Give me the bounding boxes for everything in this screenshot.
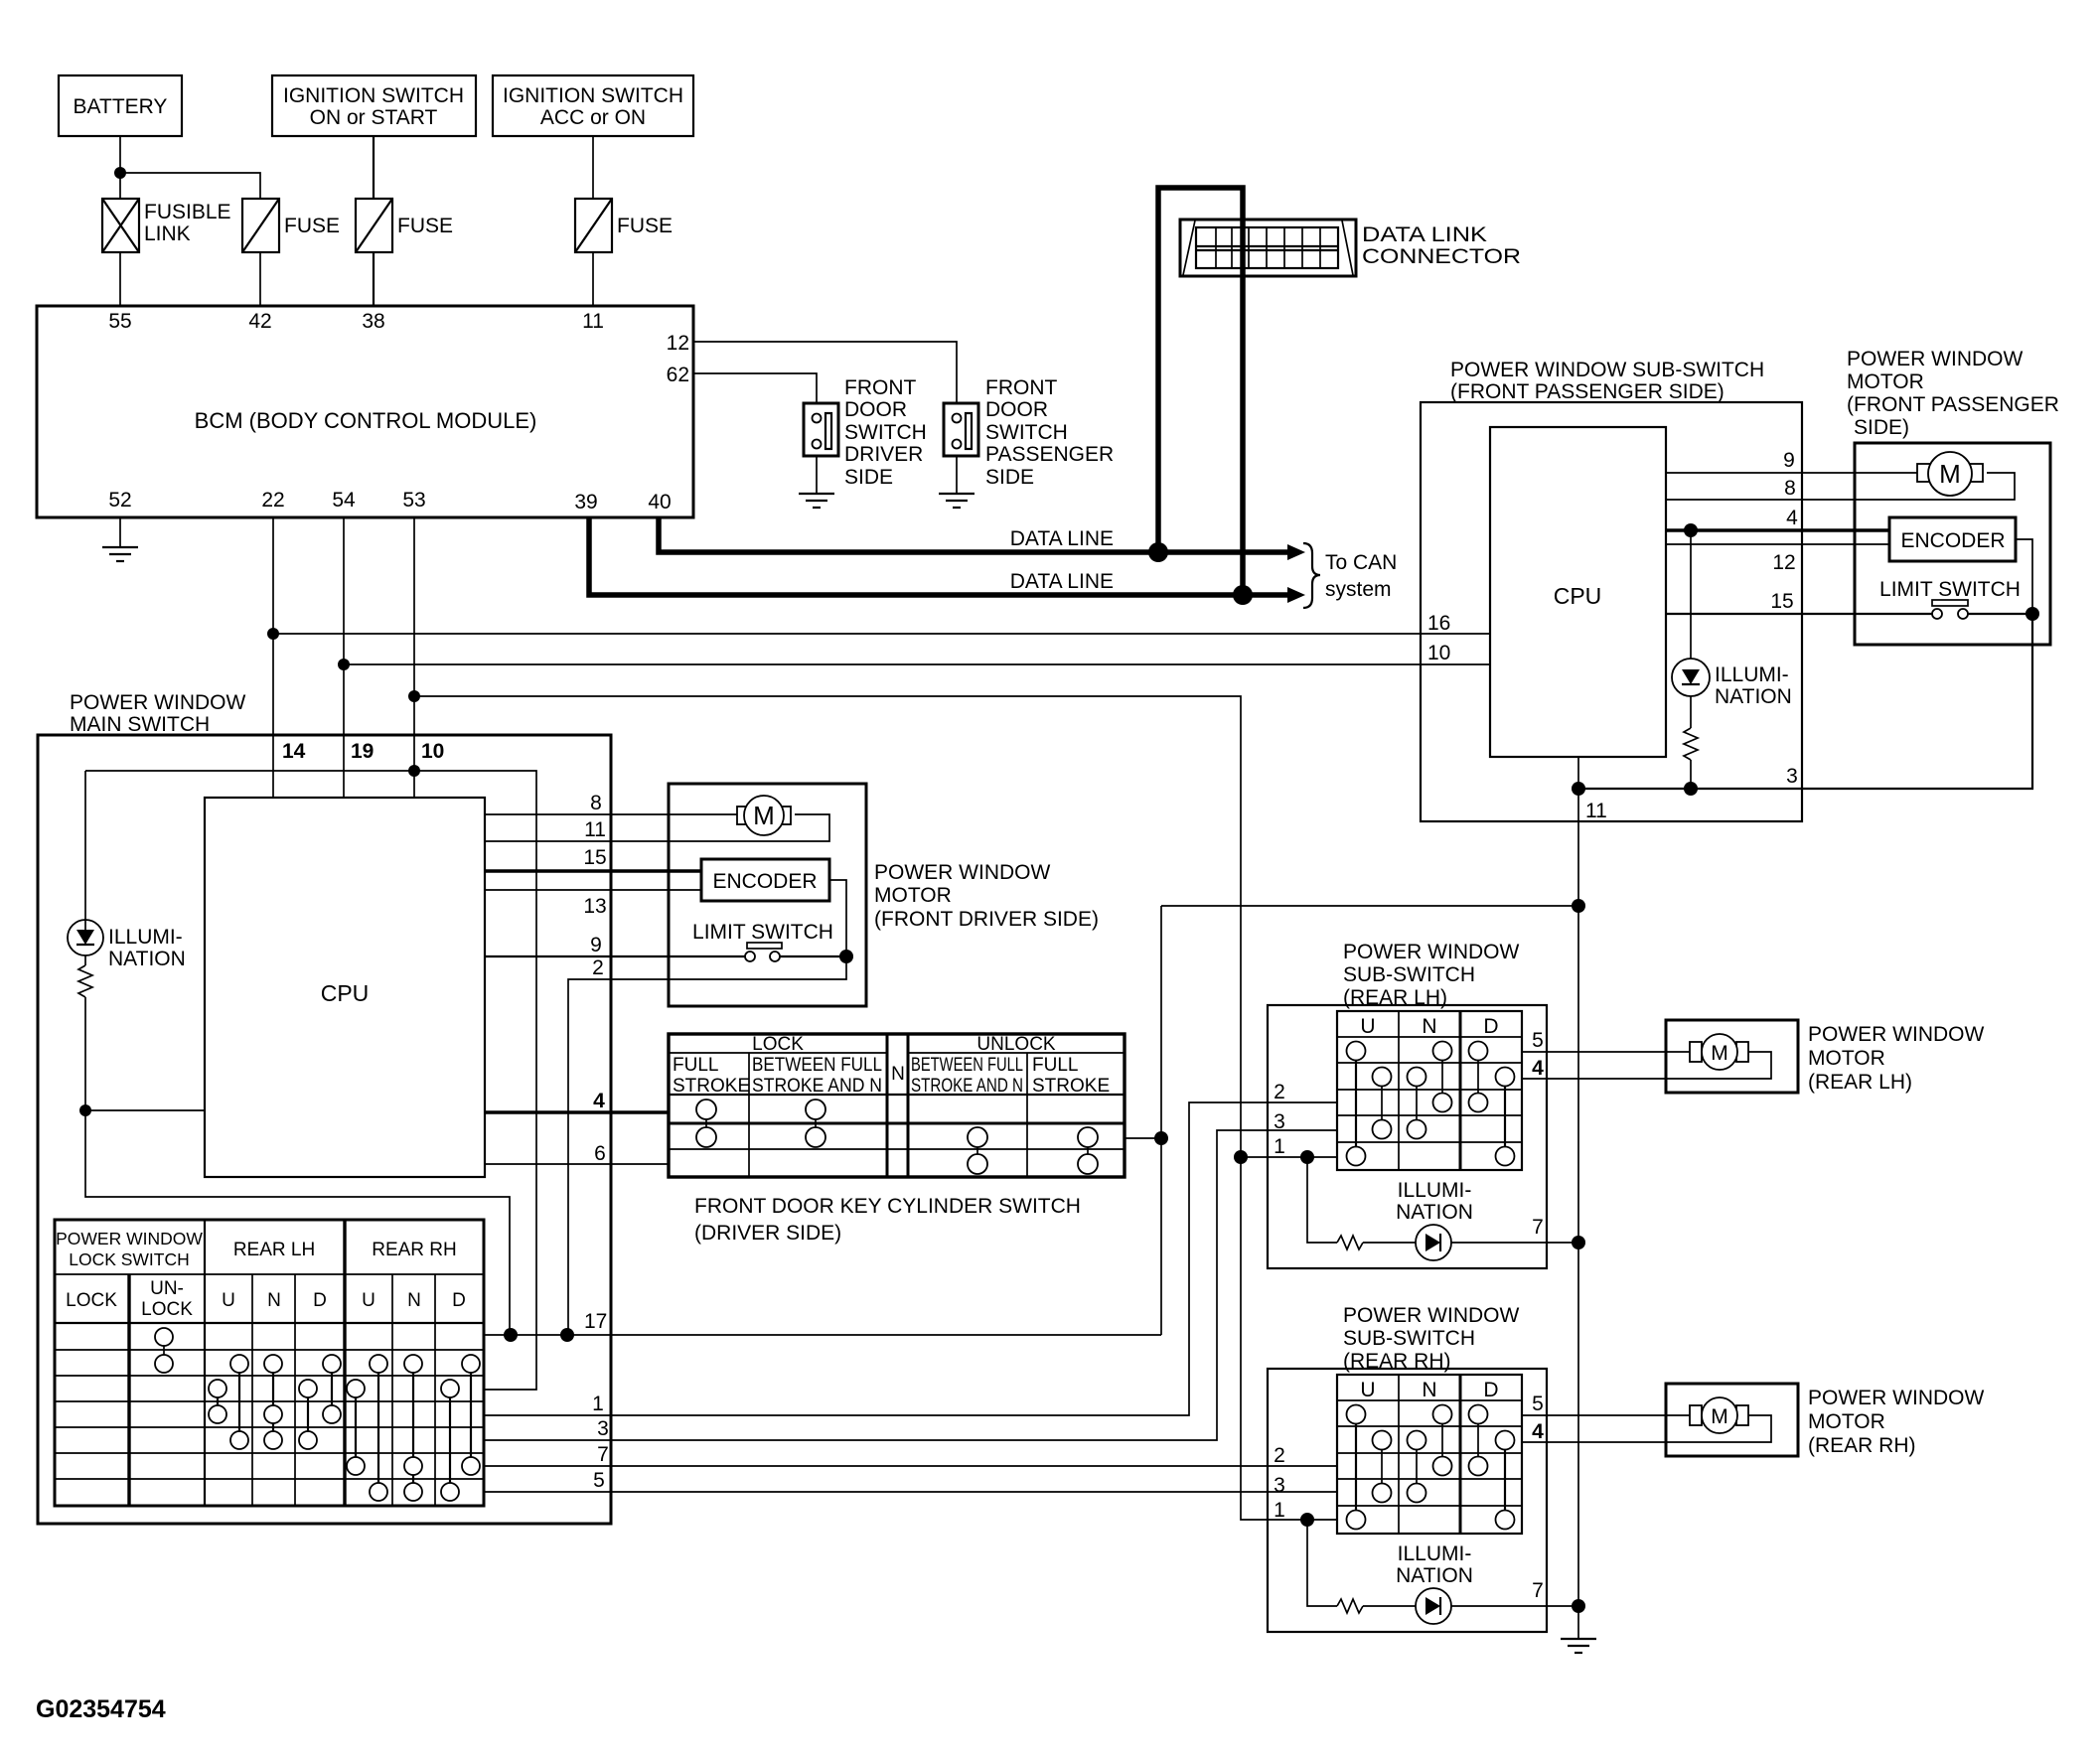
svg-text:DOOR: DOOR: [985, 398, 1048, 421]
svg-text:3: 3: [1274, 1110, 1285, 1133]
rear LH pin 1 wire: [1241, 1135, 1337, 1158]
svg-text:STROKE: STROKE: [1032, 1076, 1110, 1097]
ground at BCM pin 52: [102, 517, 138, 561]
svg-text:POWER WINDOW: POWER WINDOW: [1808, 1387, 1984, 1409]
svg-text:13: 13: [583, 895, 606, 918]
wire fuse to BCM pin 42: [259, 252, 261, 306]
limit switch driver: [692, 921, 846, 961]
svg-text:REAR RH: REAR RH: [372, 1240, 457, 1260]
svg-text:16: 16: [1427, 612, 1450, 635]
svg-text:NATION: NATION: [1715, 685, 1792, 708]
svg-text:ACC or ON: ACC or ON: [540, 106, 646, 129]
wire 4 CPU to key cylinder switch (thick): [485, 1110, 669, 1113]
power window sub-switch rear LH label: [1343, 941, 1519, 1009]
lock switch rear RH D contacts: [441, 1355, 480, 1501]
svg-text:FUSE: FUSE: [284, 215, 340, 237]
lock switch rear RH N contacts: [404, 1355, 422, 1501]
svg-text:ILLUMI-: ILLUMI-: [1715, 663, 1789, 686]
svg-text:IGNITION SWITCH: IGNITION SWITCH: [283, 84, 464, 107]
svg-text:FRONT: FRONT: [844, 376, 916, 399]
rear LH motor box: [1666, 1020, 1798, 1093]
svg-text:7: 7: [1532, 1579, 1544, 1602]
wire 10 to passenger sub-switch CPU: [344, 663, 1490, 665]
junction dot illumination: [79, 1104, 91, 1116]
junction dot rear RH pin 1: [1300, 1513, 1314, 1527]
svg-text:10: 10: [1427, 642, 1450, 664]
svg-text:DRIVER: DRIVER: [844, 443, 923, 466]
motor M rear LH: [1690, 1034, 1748, 1070]
svg-text:N: N: [1422, 1379, 1436, 1401]
svg-text:NATION: NATION: [108, 948, 186, 970]
svg-text:To CAN: To CAN: [1325, 551, 1397, 574]
junction dots wire 3: [1572, 782, 1585, 796]
svg-text:11: 11: [582, 310, 604, 333]
junction dot pin22/wire16: [267, 628, 279, 640]
svg-text:10: 10: [421, 740, 444, 763]
svg-text:8: 8: [590, 792, 602, 814]
svg-text:STROKE: STROKE: [673, 1076, 750, 1097]
fuse F2 (pin 38): [356, 199, 453, 252]
wire ignition 2 to fuse 11: [592, 136, 594, 199]
svg-text:FUSIBLE: FUSIBLE: [144, 201, 231, 223]
battery box: [59, 75, 182, 136]
junction dot data line 1: [1148, 542, 1168, 562]
wire 17: [484, 906, 1161, 1335]
svg-text:BETWEEN FULL: BETWEEN FULL: [752, 1055, 882, 1076]
power window lock switch table: [55, 1220, 484, 1506]
svg-text:DATA LINE: DATA LINE: [1010, 570, 1114, 593]
svg-text:D: D: [1483, 1379, 1498, 1401]
junction dot rear LH illumination: [1572, 1236, 1585, 1249]
svg-text:STROKE AND N: STROKE AND N: [911, 1076, 1023, 1097]
rear LH illumination: [1307, 1157, 1578, 1260]
svg-text:NATION: NATION: [1396, 1564, 1473, 1587]
wire from BCM 53 to rear sub-switch pin 1 net: [414, 696, 1337, 1520]
rear RH D contacts: [1469, 1405, 1515, 1530]
lock switch unlock contacts: [155, 1328, 173, 1373]
junction dot wire 4 illumination: [1684, 523, 1698, 537]
vertical bus to rear sub-switch grounds: [1577, 906, 1579, 1639]
svg-text:POWER WINDOW: POWER WINDOW: [1847, 348, 2023, 370]
svg-text:42: 42: [248, 310, 271, 333]
wire 9 CPU to limit switch: [485, 955, 745, 957]
svg-text:FRONT DOOR KEY CYLINDER SWITCH: FRONT DOOR KEY CYLINDER SWITCH: [694, 1195, 1081, 1218]
svg-text:12: 12: [667, 332, 689, 355]
svg-text:U: U: [1360, 1379, 1375, 1401]
rear LH sub-switch box: [1268, 1005, 1547, 1268]
svg-text:2: 2: [1274, 1444, 1285, 1467]
rear LH D contacts: [1469, 1042, 1515, 1166]
svg-text:9: 9: [1783, 449, 1795, 472]
svg-text:ENCODER: ENCODER: [712, 870, 817, 893]
svg-text:LOCK: LOCK: [752, 1034, 804, 1055]
wire illumination down to pin 17 net: [85, 1110, 510, 1335]
wire BCM pin 39 / data line 2: [589, 517, 1305, 603]
svg-text:PASSENGER: PASSENGER: [985, 443, 1114, 466]
front door switch passenger side: [944, 376, 1114, 489]
svg-text:8: 8: [1784, 477, 1796, 500]
svg-text:54: 54: [332, 489, 356, 512]
svg-text:POWER WINDOW: POWER WINDOW: [874, 861, 1050, 884]
wire 7 main switch to rear RH pin 2: [484, 1443, 1337, 1466]
rear RH sub-switch box: [1268, 1369, 1547, 1632]
svg-text:1: 1: [592, 1393, 604, 1415]
svg-text:7: 7: [1532, 1216, 1544, 1239]
svg-text:POWER WINDOW: POWER WINDOW: [56, 1229, 203, 1248]
svg-text:2: 2: [592, 956, 604, 979]
rear LH N contacts: [1408, 1042, 1452, 1139]
wire BCM pin 62 to driver door switch: [693, 373, 817, 403]
wire fusible link to BCM pin 55: [119, 252, 121, 306]
svg-text:52: 52: [108, 489, 131, 512]
ground below passenger door switch: [939, 456, 975, 508]
wire from pin11 junction to rear switches: [1161, 905, 1578, 907]
wire 3 main switch to rear LH pin 3: [484, 1130, 1337, 1440]
svg-text:55: 55: [108, 310, 131, 333]
wire pin14 into CPU: [272, 735, 274, 798]
rear LH pin 4 wire: [1522, 1052, 1771, 1080]
wire 15 CPU to encoder (thick): [485, 869, 701, 872]
passenger encoder output wire: [2016, 539, 2032, 614]
svg-text:19: 19: [351, 740, 374, 763]
svg-text:LIMIT SWITCH: LIMIT SWITCH: [1879, 578, 2021, 601]
CAN bus hat wire above data link connector: [1158, 188, 1243, 595]
svg-text:FUSE: FUSE: [617, 215, 673, 237]
svg-text:BATTERY: BATTERY: [74, 95, 168, 118]
svg-text:N: N: [267, 1290, 281, 1311]
wire 15 passenger CPU to limit switch: [1666, 590, 1932, 614]
junction dot pin10 on illumination bus: [408, 765, 420, 777]
svg-text:14: 14: [282, 740, 306, 763]
passenger motor box: [1855, 443, 2050, 645]
fuse F1 (pin 42): [242, 199, 340, 252]
data link connector: [1180, 220, 1521, 276]
svg-text:(REAR LH): (REAR LH): [1808, 1071, 1912, 1094]
svg-text:FRONT: FRONT: [985, 376, 1057, 399]
junction dot passenger limit switch: [2025, 607, 2039, 621]
svg-text:LINK: LINK: [144, 222, 191, 245]
wire BCM pin 22 down to main switch pin 14: [272, 517, 274, 735]
encoder driver box: [701, 859, 829, 901]
main switch pin labels 14 19 10: [282, 740, 444, 763]
key cylinder switch caption: [694, 1195, 1081, 1245]
junction dot 17b: [560, 1328, 574, 1342]
svg-text:40: 40: [648, 491, 671, 514]
svg-text:N: N: [1422, 1015, 1436, 1038]
svg-text:U: U: [362, 1290, 375, 1311]
wire battery to fusible link with branch to fuse 42: [120, 136, 260, 199]
rear RH N contacts: [1408, 1405, 1452, 1503]
junction dot rear RH illumination: [1572, 1599, 1585, 1613]
svg-text:SUB-SWITCH: SUB-SWITCH: [1343, 1327, 1475, 1350]
ignition switch ON or START box: [272, 75, 476, 136]
wire 8 CPU to driver motor: [485, 813, 739, 815]
svg-text:38: 38: [362, 310, 384, 333]
rear LH pin 5 wire: [1522, 1029, 1695, 1052]
power window motor front passenger label: [1847, 348, 2059, 439]
lock switch rear RH U contacts: [347, 1355, 387, 1501]
lock switch rear LH U contacts: [209, 1355, 248, 1449]
svg-text:UN-: UN-: [150, 1278, 184, 1299]
svg-text:SIDE: SIDE: [844, 466, 893, 489]
wire 13 CPU to encoder: [485, 889, 701, 891]
rear LH switch grid: [1337, 1011, 1522, 1170]
svg-text:12: 12: [1772, 551, 1795, 574]
svg-text:REAR LH: REAR LH: [233, 1240, 315, 1260]
wire pin10 into CPU: [413, 735, 415, 798]
passenger illumination LED: [1672, 530, 1792, 708]
power window sub-switch front passenger label: [1450, 359, 1764, 403]
wire pin19 into CPU: [343, 735, 345, 798]
wire illumination to CPU left: [85, 1109, 205, 1111]
passenger resistor: [1684, 696, 1698, 789]
svg-text:POWER WINDOW: POWER WINDOW: [1808, 1023, 1984, 1046]
svg-text:MOTOR: MOTOR: [1808, 1410, 1885, 1433]
svg-text:G02354754: G02354754: [36, 1695, 166, 1723]
svg-text:POWER WINDOW: POWER WINDOW: [1343, 941, 1519, 963]
power window motor rear RH label: [1808, 1387, 1984, 1457]
front door key cylinder switch table: [669, 1034, 1125, 1177]
svg-text:(FRONT DRIVER SIDE): (FRONT DRIVER SIDE): [874, 908, 1099, 931]
power window sub-switch rear RH label: [1343, 1304, 1519, 1373]
wire 4 passenger CPU to encoder (thick): [1666, 507, 1889, 530]
wire 3 passenger: [1578, 614, 2032, 789]
rear LH U contacts: [1347, 1042, 1392, 1166]
svg-text:15: 15: [1770, 590, 1793, 613]
svg-text:M: M: [1939, 459, 1961, 489]
svg-text:3: 3: [1274, 1474, 1285, 1497]
power window motor front driver side box: [669, 784, 1099, 1006]
svg-text:STROKE AND N: STROKE AND N: [752, 1076, 882, 1097]
svg-text:D: D: [313, 1290, 327, 1311]
rear RH switch grid: [1337, 1375, 1522, 1534]
svg-text:CPU: CPU: [1554, 583, 1602, 609]
svg-text:FUSE: FUSE: [397, 215, 453, 237]
ground below driver door switch: [799, 456, 834, 508]
wire ignition 1 to fuse 38: [373, 136, 375, 199]
svg-text:2: 2: [1274, 1081, 1285, 1103]
svg-text:9: 9: [590, 934, 602, 956]
svg-text:D: D: [452, 1290, 466, 1311]
wire 11 driver motor return: [485, 814, 829, 841]
svg-text:39: 39: [574, 491, 597, 514]
svg-text:5: 5: [1532, 1393, 1544, 1415]
svg-text:(FRONT PASSENGER SIDE): (FRONT PASSENGER SIDE): [1450, 380, 1725, 403]
fuse F3 (pin 11): [575, 199, 673, 252]
encoder output wire to limit switch junction: [829, 880, 846, 956]
lock switch rear LH N contacts: [264, 1355, 282, 1449]
svg-text:15: 15: [583, 846, 606, 869]
main switch box: [38, 735, 611, 1524]
illumination LED main switch: [68, 771, 186, 970]
junction dot battery branch: [114, 167, 126, 179]
svg-text:SUB-SWITCH: SUB-SWITCH: [1343, 963, 1475, 986]
motor M passenger: [1917, 452, 1983, 496]
svg-text:22: 22: [261, 489, 284, 512]
power window motor rear LH label: [1808, 1023, 1984, 1094]
svg-text:11: 11: [584, 818, 606, 841]
key cylinder contacts unlock full stroke: [1078, 1127, 1098, 1174]
svg-text:SWITCH: SWITCH: [844, 421, 927, 444]
svg-text:M: M: [753, 801, 775, 830]
svg-text:D: D: [1483, 1015, 1498, 1038]
passenger encoder box: [1889, 517, 2016, 561]
svg-text:3: 3: [1786, 765, 1798, 788]
svg-text:4: 4: [1532, 1057, 1544, 1080]
svg-text:CONNECTOR: CONNECTOR: [1362, 245, 1521, 268]
svg-text:BCM (BODY CONTROL MODULE): BCM (BODY CONTROL MODULE): [195, 408, 537, 433]
svg-text:MAIN SWITCH: MAIN SWITCH: [70, 713, 210, 736]
passenger sub-switch box: [1421, 402, 1802, 821]
wire illumination bus to lock switch (via x=540): [85, 771, 536, 1390]
lock switch rear LH D contacts: [299, 1355, 341, 1449]
svg-text:17: 17: [584, 1310, 607, 1333]
junction dot pin53 branch: [408, 690, 420, 702]
svg-text:NATION: NATION: [1396, 1201, 1473, 1224]
wire 5 main switch to rear RH pin 3: [484, 1469, 1337, 1492]
svg-text:5: 5: [1532, 1029, 1544, 1052]
wire 9 passenger CPU to motor: [1666, 449, 1924, 473]
svg-text:1: 1: [1274, 1499, 1285, 1522]
brace and To CAN system label: [1303, 543, 1397, 608]
junction dot key cylinder output: [1154, 1131, 1168, 1145]
fusible link FL: [102, 199, 231, 252]
svg-text:UNLOCK: UNLOCK: [976, 1034, 1056, 1055]
junction dot 17a: [504, 1328, 518, 1342]
svg-text:4: 4: [1786, 507, 1798, 529]
svg-text:ILLUMI-: ILLUMI-: [1398, 1542, 1472, 1565]
svg-text:N: N: [891, 1064, 905, 1085]
wire BCM pin 40 / data line 1: [659, 517, 1305, 560]
svg-text:ILLUMI-: ILLUMI-: [108, 926, 183, 949]
junction dot data line 2: [1233, 585, 1253, 605]
svg-text:LOCK: LOCK: [66, 1290, 117, 1311]
junction dot pin 11 net: [1572, 899, 1585, 913]
svg-text:DATA LINE: DATA LINE: [1010, 527, 1114, 550]
svg-text:6: 6: [594, 1142, 606, 1165]
svg-text:4: 4: [593, 1090, 605, 1112]
svg-text:SIDE: SIDE: [985, 466, 1034, 489]
svg-text:7: 7: [597, 1443, 609, 1466]
wire fuse to BCM pin 11: [592, 252, 594, 306]
wire 6 CPU to key cylinder switch: [485, 1163, 669, 1165]
rear RH motor box: [1666, 1384, 1798, 1456]
wire BCM pin 53 down to main switch pin 10: [413, 517, 415, 735]
svg-text:CPU: CPU: [321, 980, 370, 1006]
svg-text:53: 53: [402, 489, 425, 512]
svg-text:M: M: [1711, 1042, 1728, 1065]
wire BCM pin 54 down to main switch pin 19: [343, 517, 345, 735]
key cylinder output wire: [1125, 1137, 1161, 1139]
svg-text:5: 5: [593, 1469, 605, 1492]
wire 2 limit switch to pin17 net: [568, 956, 846, 1335]
svg-text:4: 4: [1532, 1420, 1544, 1443]
svg-text:LIMIT SWITCH: LIMIT SWITCH: [692, 921, 833, 944]
rear RH illumination: [1307, 1520, 1578, 1624]
key cylinder contacts unlock between: [968, 1127, 987, 1174]
wire fuse to BCM pin 38: [373, 252, 375, 306]
front door switch driver side: [804, 376, 927, 489]
wire 16 to passenger sub-switch CPU: [273, 633, 1490, 635]
motor M rear RH: [1690, 1397, 1748, 1433]
svg-text:11: 11: [1585, 800, 1607, 822]
svg-text:LOCK SWITCH: LOCK SWITCH: [69, 1249, 190, 1269]
svg-text:SWITCH: SWITCH: [985, 421, 1068, 444]
svg-text:LOCK: LOCK: [141, 1299, 193, 1320]
junction dot limit switch driver: [839, 950, 853, 963]
wire 12 passenger CPU to encoder: [1666, 544, 1889, 574]
junction dots rear LH pin 1: [1234, 1150, 1248, 1164]
svg-text:DATA LINK: DATA LINK: [1362, 223, 1487, 246]
svg-text:MOTOR: MOTOR: [1847, 370, 1924, 393]
svg-text:U: U: [1360, 1015, 1375, 1038]
rear RH pin 4 wire: [1522, 1415, 1771, 1443]
wire BCM pin 12 to passenger door switch: [693, 342, 957, 403]
passenger CPU bottom wire / pin 11: [1578, 757, 1607, 906]
svg-text:POWER WINDOW SUB-SWITCH: POWER WINDOW SUB-SWITCH: [1450, 359, 1764, 381]
svg-text:MOTOR: MOTOR: [874, 884, 952, 907]
svg-text:3: 3: [597, 1417, 609, 1440]
ignition switch ACC or ON box: [493, 75, 693, 136]
svg-text:(DRIVER SIDE): (DRIVER SIDE): [694, 1222, 841, 1245]
motor M driver: [737, 796, 791, 835]
ground bottom right: [1561, 1639, 1596, 1653]
svg-text:ON or START: ON or START: [310, 106, 438, 129]
svg-text:N: N: [407, 1290, 421, 1311]
svg-text:SIDE): SIDE): [1854, 416, 1909, 439]
key cylinder contacts lock full stroke: [696, 1100, 716, 1147]
svg-text:ILLUMI-: ILLUMI-: [1398, 1179, 1472, 1202]
svg-text:FULL: FULL: [1032, 1055, 1078, 1076]
junction dot pin54/wire10: [338, 659, 350, 670]
svg-text:FULL: FULL: [673, 1055, 718, 1076]
svg-text:DOOR: DOOR: [844, 398, 907, 421]
main switch CPU box: [205, 798, 485, 1177]
rear RH U contacts: [1347, 1405, 1392, 1530]
rear RH pin 5 wire: [1522, 1393, 1695, 1415]
svg-text:U: U: [222, 1290, 235, 1311]
svg-text:(REAR RH): (REAR RH): [1808, 1434, 1916, 1457]
wire 8 passenger motor return: [1666, 473, 2015, 500]
svg-text:M: M: [1711, 1405, 1728, 1428]
svg-text:POWER WINDOW: POWER WINDOW: [1343, 1304, 1519, 1327]
svg-text:62: 62: [667, 364, 689, 386]
svg-text:system: system: [1325, 578, 1392, 601]
power window main switch label: [70, 691, 245, 736]
wire 1 main switch to rear LH pin 2: [484, 1102, 1337, 1415]
svg-text:ENCODER: ENCODER: [1900, 529, 2005, 552]
BCM (body control module) box: [37, 306, 693, 517]
key cylinder contacts lock between: [806, 1100, 825, 1147]
svg-text:1: 1: [1274, 1135, 1285, 1158]
svg-text:MOTOR: MOTOR: [1808, 1047, 1885, 1070]
svg-text:BETWEEN FULL: BETWEEN FULL: [911, 1055, 1023, 1076]
svg-text:(FRONT PASSENGER: (FRONT PASSENGER: [1847, 393, 2059, 416]
passenger CPU box: [1490, 427, 1666, 757]
resistor below LED: [78, 955, 92, 1110]
svg-text:POWER WINDOW: POWER WINDOW: [70, 691, 245, 714]
passenger limit switch: [1879, 578, 2032, 619]
svg-text:IGNITION SWITCH: IGNITION SWITCH: [503, 84, 683, 107]
